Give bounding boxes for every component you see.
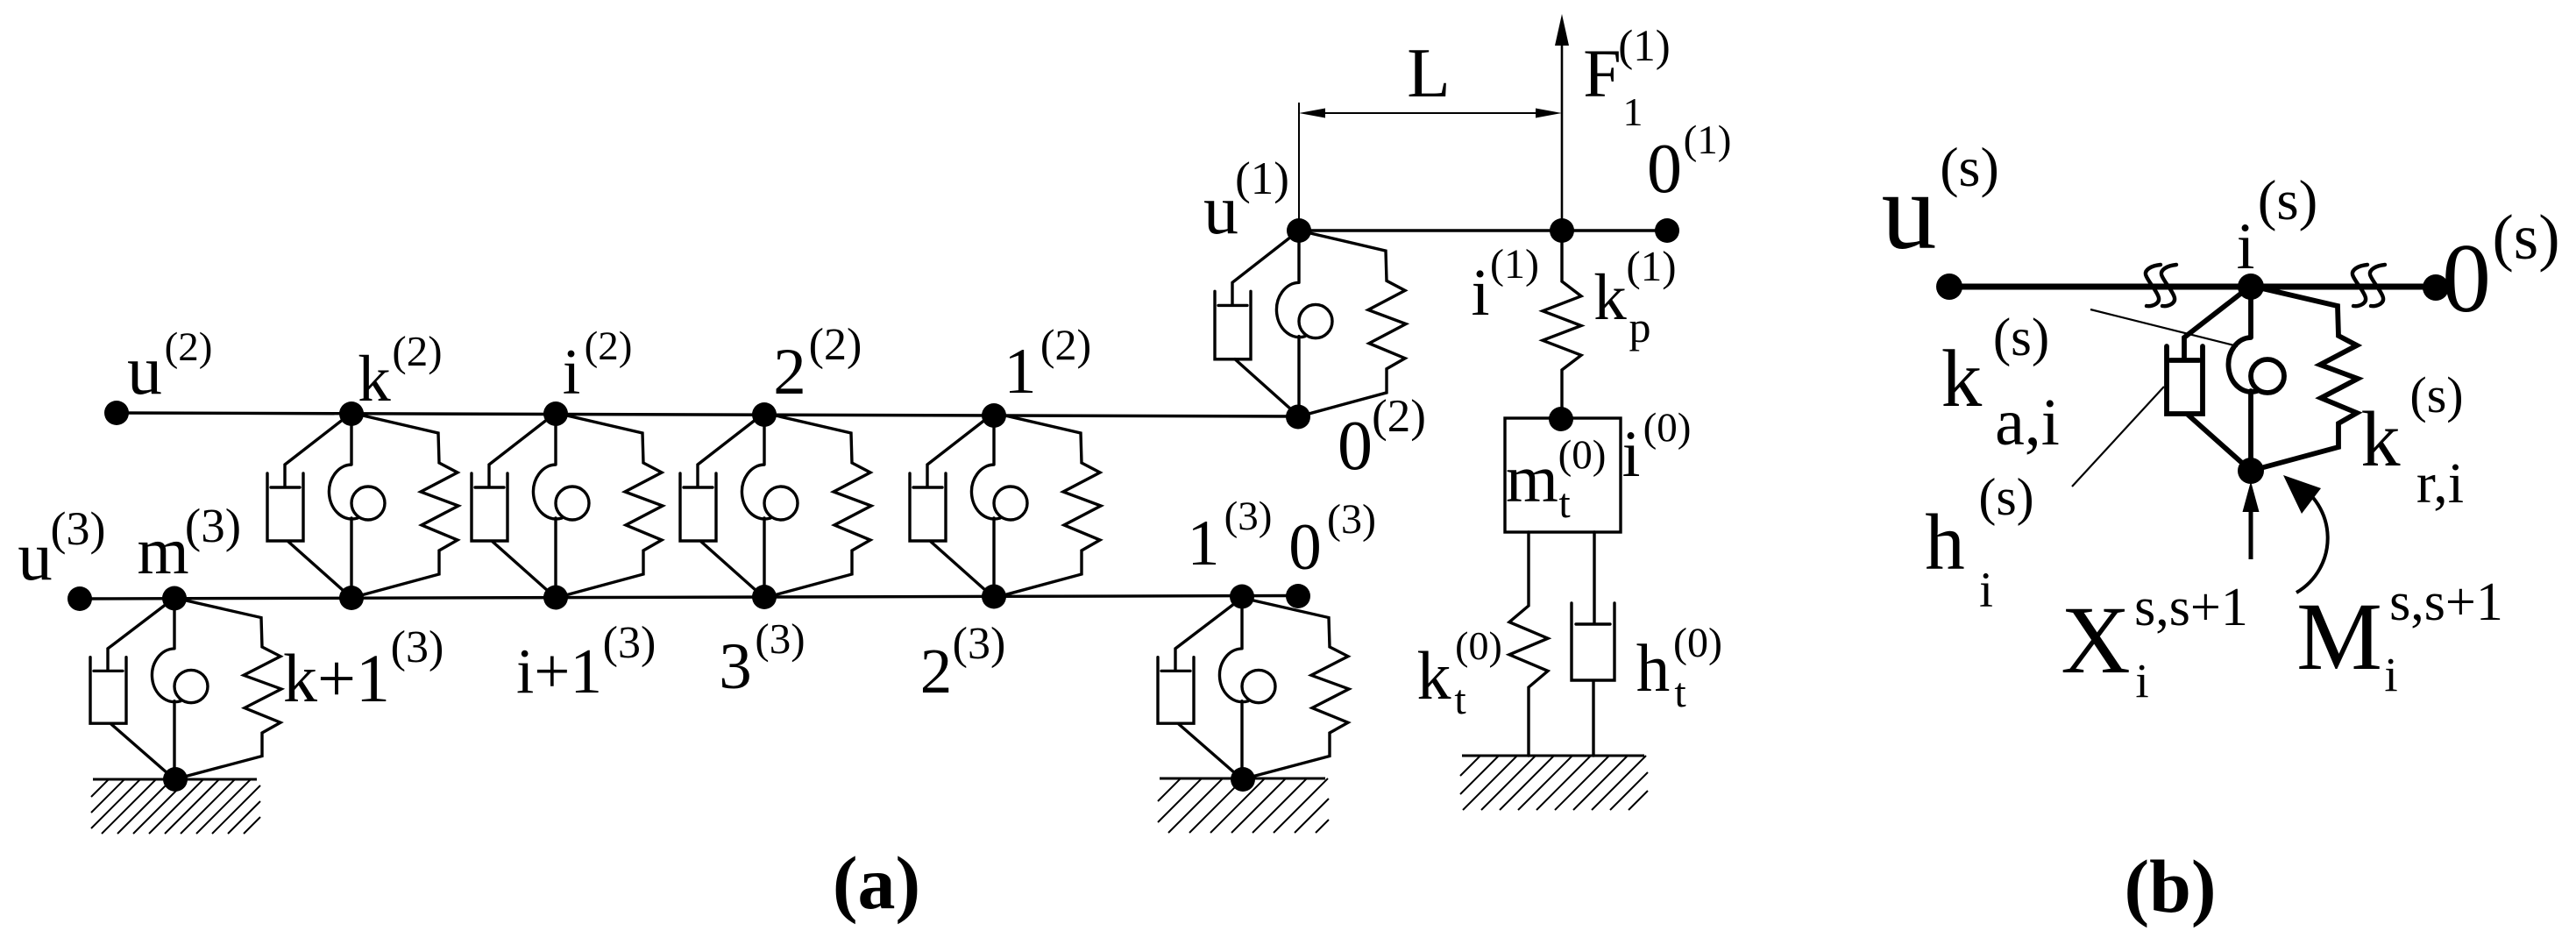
spring-damper-loop unit below m(3) to ground [90,598,281,779]
svg-text:2: 2 [773,336,806,409]
node 1(2) [982,403,1006,428]
node below i(s) [2238,458,2264,484]
node u(2) [104,401,129,425]
svg-text:u: u [127,332,162,409]
svg-text:i: i [2135,654,2148,707]
ground hatching under m(3) unit [91,779,109,797]
damper ht(0) [1572,532,1614,756]
spring-damper-loop unit below k(2) [267,413,458,598]
node i(1) [1550,218,1574,243]
spring kp(1) [1543,231,1581,419]
wire: level-3 bar u(3)-0(3) [80,596,1298,600]
svg-text:(0): (0) [1558,432,1607,478]
node i(s) [2238,274,2264,300]
svg-text:t: t [1558,480,1571,527]
leader line for k_a,i(s) [2090,309,2238,346]
svg-text:i: i [563,337,581,409]
line-break squiggle pair left [2146,265,2176,306]
svg-text:(s): (s) [2258,169,2318,232]
svg-text:i: i [1979,563,1993,618]
node i(0) mass top [1549,407,1573,431]
node u(s) [1936,274,1962,300]
svg-text:m: m [137,515,188,588]
svg-text:u: u [1203,172,1238,249]
svg-text:i: i [1471,256,1489,330]
svg-text:k: k [1593,261,1627,334]
svg-text:(2): (2) [809,320,862,370]
svg-text:2: 2 [920,636,953,707]
node i(2) [543,401,568,426]
svg-text:(3): (3) [185,499,241,552]
svg-text:(s): (s) [1940,136,1999,198]
svg-text:t: t [1454,677,1466,723]
svg-text:(1): (1) [1684,117,1732,163]
svg-text:h: h [1925,498,1965,586]
svg-text:r,i: r,i [2416,451,2464,515]
spring-damper-loop unit below 1(3) to ground [1158,598,1349,779]
svg-text:(s): (s) [2409,366,2463,423]
mass mt(0) box [1505,418,1621,532]
arrowhead F1(1) [1555,14,1569,46]
node m(3) [162,586,187,611]
node k+1(3) [339,586,364,610]
node 1(3) [1230,585,1254,609]
svg-text:(1): (1) [1626,242,1676,290]
svg-text:u: u [18,519,53,595]
svg-text:X: X [2061,586,2130,693]
svg-text:(2): (2) [1372,391,1426,442]
svg-text:(3): (3) [755,615,805,663]
svg-text:0: 0 [1647,131,1682,208]
arrowhead L right [1536,109,1562,118]
dimension line L [1306,112,1555,114]
svg-text:(a): (a) [833,841,920,925]
svg-text:s,s+1: s,s+1 [2389,572,2503,632]
ground line under mt [1462,755,1644,757]
svg-text:(0): (0) [1673,620,1722,666]
node 0(2) [1286,405,1310,430]
svg-text:(3): (3) [51,502,106,555]
node k(2) [339,401,364,426]
svg-text:k: k [2361,396,2401,483]
svg-text:1: 1 [1004,336,1037,408]
svg-text:u: u [1882,151,1937,273]
svg-text:1: 1 [1623,89,1643,134]
node u(3) [67,586,92,611]
ground node under m(3) [163,767,188,792]
node 0(1) [1655,218,1679,243]
svg-text:p: p [1629,302,1651,352]
svg-text:i: i [2384,648,2397,701]
curved arrow M_i^{s,s+1} [2294,482,2328,593]
wire: level-2 bar u(2)-0(2) [117,413,1298,416]
spring-damper-loop unit below i(2) [472,413,663,598]
ground line under 1(3) unit [1160,778,1325,780]
node i+1(3) [543,586,568,610]
svg-text:k: k [1941,334,1983,424]
svg-text:s,s+1: s,s+1 [2134,578,2248,637]
svg-text:(s): (s) [1993,309,2049,367]
spring kt(0) [1509,532,1548,756]
svg-text:k: k [1417,637,1451,714]
extension line above u(1) [1298,103,1300,231]
wire: level-1 bar u(1)-0(1) [1299,229,1667,231]
arrow X_i^{s,s+1} [2249,508,2253,559]
svg-text:(s): (s) [1978,468,2033,526]
ground hatching under mt [1460,756,1480,776]
svg-text:1: 1 [1188,508,1220,579]
svg-text:(0): (0) [1455,623,1502,668]
svg-text:(2): (2) [392,327,442,375]
svg-text:(s): (s) [2492,202,2559,273]
line-break squiggle pair right [2352,265,2385,306]
ground hatching under 1(3) unit [1158,778,1181,801]
spring-damper-loop unit below 1(2) [910,413,1101,598]
svg-text:(1): (1) [1618,22,1670,71]
svg-text:i+1: i+1 [516,636,602,707]
svg-text:a,i: a,i [1995,386,2060,459]
svg-text:(3): (3) [953,619,1006,669]
svg-text:(3): (3) [391,622,444,672]
svg-text:t: t [1674,670,1686,716]
svg-text:F: F [1583,35,1621,111]
wire: bar u(s)-i(s)-0(s) [1949,284,2436,290]
svg-text:m: m [1506,441,1558,516]
svg-text:0: 0 [2442,224,2491,333]
svg-text:h: h [1636,630,1671,706]
ground node under 1(3) [1231,767,1255,792]
svg-text:(2): (2) [1040,320,1091,369]
svg-text:0: 0 [1288,511,1322,584]
node u(1) [1287,218,1311,243]
leader line for h_i(s) [2072,387,2164,487]
arrowhead L left [1299,109,1325,118]
svg-text:(1): (1) [1235,153,1289,204]
svg-text:(b): (b) [2124,844,2216,928]
svg-text:(3): (3) [603,618,656,668]
svg-text:L: L [1407,33,1450,112]
node 2(2) [752,402,777,427]
svg-text:3: 3 [719,630,752,703]
svg-text:(1): (1) [1490,241,1539,288]
svg-text:M: M [2296,583,2382,690]
svg-text:(3): (3) [1224,494,1273,539]
svg-text:0: 0 [1338,408,1373,485]
svg-text:i: i [2237,210,2255,283]
spring-damper-loop unit below 2(2) [680,413,871,598]
svg-text:i: i [1622,418,1641,491]
node 0(s) [2423,274,2449,301]
spring-damper-loop unit u(1)-0(2) [1215,231,1406,416]
svg-text:(2): (2) [585,323,633,369]
node 2(3) [982,585,1006,609]
svg-text:k: k [358,343,391,416]
svg-text:k+1: k+1 [283,640,390,716]
svg-text:(3): (3) [1327,496,1376,543]
ground line under m(3) unit [93,778,257,781]
svg-text:(0): (0) [1643,405,1692,451]
spring-damper-loop unit below i(s) [2167,286,2358,471]
svg-text:(2): (2) [165,324,213,370]
force F1(1) arrow line [1561,21,1564,231]
node 3(3) [752,585,777,609]
node 0(3) [1286,584,1310,608]
